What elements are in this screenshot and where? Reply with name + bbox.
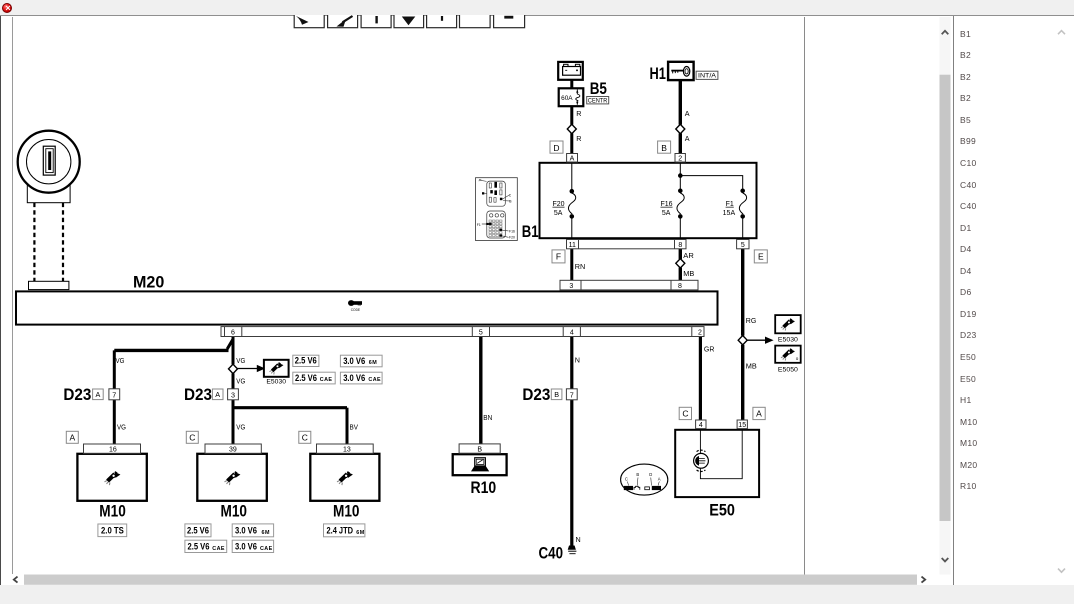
- svg-text:C: C: [189, 433, 195, 443]
- svg-text:F1: F1: [477, 223, 481, 227]
- svg-text:B: B: [477, 446, 482, 453]
- svg-text:A: A: [570, 155, 575, 162]
- svg-text:F20: F20: [509, 236, 515, 240]
- svg-text:R10: R10: [471, 478, 497, 497]
- svg-text:2.0 TS: 2.0 TS: [101, 525, 124, 535]
- svg-text:7: 7: [112, 390, 116, 399]
- svg-text:o: o: [796, 356, 799, 361]
- svg-text:16: 16: [109, 446, 117, 453]
- svg-text:R: R: [576, 109, 581, 118]
- svg-text:5A: 5A: [554, 210, 563, 217]
- svg-text:M10: M10: [99, 502, 126, 521]
- svg-text:15A: 15A: [723, 210, 736, 217]
- svg-text:4: 4: [699, 422, 703, 429]
- svg-text:2.5 V6: 2.5 V6: [187, 525, 209, 535]
- svg-text:A: A: [756, 409, 762, 419]
- svg-text:C: C: [302, 433, 308, 443]
- svg-text:5: 5: [479, 330, 483, 337]
- svg-text:5: 5: [741, 242, 745, 249]
- svg-text:3: 3: [569, 283, 573, 290]
- svg-text:B: B: [636, 472, 639, 477]
- svg-text:CENTR: CENTR: [588, 98, 608, 105]
- svg-text:CAE: CAE: [368, 377, 381, 383]
- svg-text:VG: VG: [117, 422, 126, 431]
- svg-text:D23: D23: [522, 385, 550, 404]
- svg-text:F16: F16: [660, 201, 672, 208]
- svg-text:A: A: [69, 433, 75, 443]
- svg-text:E: E: [758, 252, 764, 262]
- svg-text:M20: M20: [133, 273, 164, 292]
- svg-text:A: A: [685, 109, 690, 118]
- svg-text:11: 11: [569, 242, 576, 249]
- svg-text:C40: C40: [539, 543, 564, 562]
- svg-text:BN: BN: [483, 413, 492, 422]
- svg-text:B5: B5: [590, 79, 607, 98]
- svg-text:13: 13: [343, 446, 351, 453]
- svg-text:D: D: [553, 143, 559, 153]
- svg-text:F: F: [556, 252, 561, 262]
- svg-text:N: N: [575, 355, 580, 364]
- svg-text:60A: 60A: [561, 95, 573, 102]
- svg-text:2.4 JTD: 2.4 JTD: [327, 525, 354, 535]
- svg-text:CODE: CODE: [351, 308, 361, 312]
- svg-text:D23: D23: [63, 385, 91, 404]
- svg-text:VG: VG: [236, 422, 245, 431]
- svg-text:3.0 V6: 3.0 V6: [343, 356, 365, 366]
- svg-text:M10: M10: [333, 502, 360, 521]
- svg-text:GR: GR: [704, 344, 715, 353]
- svg-text:2.5 V6: 2.5 V6: [295, 356, 317, 366]
- svg-text:A: A: [658, 477, 661, 482]
- svg-text:VG: VG: [116, 356, 125, 365]
- svg-text:2: 2: [698, 330, 702, 337]
- svg-text:2: 2: [678, 155, 682, 162]
- svg-text:D: D: [649, 472, 652, 477]
- svg-text:15: 15: [738, 422, 746, 429]
- svg-text:6M: 6M: [369, 360, 378, 366]
- svg-text:2.5 V6: 2.5 V6: [295, 373, 317, 383]
- svg-text:A: A: [685, 134, 690, 143]
- svg-text:3: 3: [231, 390, 235, 399]
- svg-text:RN: RN: [575, 262, 586, 271]
- svg-text:D23: D23: [184, 385, 212, 404]
- svg-text:INT/A: INT/A: [698, 73, 717, 80]
- svg-text:B1: B1: [522, 222, 539, 241]
- svg-text:VG: VG: [236, 377, 245, 386]
- svg-text:C: C: [625, 477, 628, 482]
- svg-text:AR: AR: [683, 251, 694, 260]
- svg-text:3.0 V6: 3.0 V6: [235, 542, 257, 552]
- svg-text:8: 8: [678, 242, 682, 249]
- svg-text:N: N: [576, 535, 581, 544]
- svg-text:A: A: [96, 390, 101, 399]
- svg-text:5A: 5A: [662, 210, 671, 217]
- svg-text:VG: VG: [236, 356, 245, 365]
- svg-text:B: B: [661, 143, 667, 153]
- svg-text:RG: RG: [746, 316, 757, 325]
- svg-text:C: C: [682, 409, 688, 419]
- svg-text:39: 39: [229, 446, 237, 453]
- svg-text:7: 7: [570, 390, 574, 399]
- svg-text:A: A: [215, 390, 220, 399]
- svg-text:F16: F16: [509, 229, 515, 233]
- svg-text:3.0 V6: 3.0 V6: [235, 525, 257, 535]
- svg-text:CAE: CAE: [320, 377, 333, 383]
- svg-text:BV: BV: [350, 422, 359, 431]
- svg-text:R: R: [576, 134, 581, 143]
- svg-text:CAE: CAE: [260, 546, 273, 552]
- svg-text:F1: F1: [726, 201, 734, 208]
- svg-text:3.0 V6: 3.0 V6: [343, 373, 365, 383]
- svg-text:MB: MB: [683, 269, 694, 278]
- svg-text:H1: H1: [650, 64, 666, 83]
- svg-text:E5030: E5030: [266, 378, 286, 385]
- svg-text:E5030: E5030: [778, 336, 799, 343]
- svg-text:8: 8: [678, 283, 682, 290]
- svg-text:6: 6: [231, 330, 235, 337]
- svg-text:2.5 V6: 2.5 V6: [188, 542, 210, 552]
- svg-text:E5050: E5050: [778, 366, 799, 373]
- svg-text:CAE: CAE: [212, 546, 225, 552]
- svg-text:M10: M10: [221, 502, 248, 521]
- svg-text:MB: MB: [746, 362, 757, 371]
- svg-text:B: B: [554, 390, 559, 399]
- svg-text:6M: 6M: [262, 530, 271, 536]
- svg-text:6M: 6M: [356, 530, 365, 536]
- svg-text:F20: F20: [552, 201, 564, 208]
- svg-text:4: 4: [570, 330, 574, 337]
- svg-text:E50: E50: [709, 501, 735, 520]
